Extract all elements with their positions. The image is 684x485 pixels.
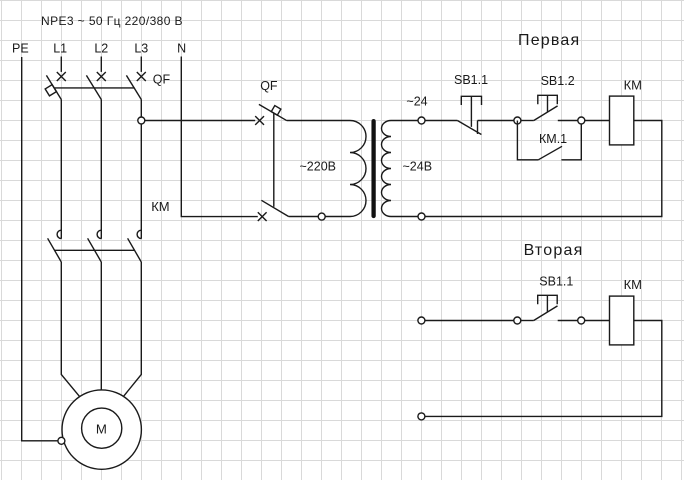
breaker QF pole 1 blade xyxy=(46,75,61,99)
breaker QF control link xyxy=(273,113,275,207)
contactor KM mechanical link xyxy=(55,249,135,251)
wire KM coil return loop (Vtoraya) xyxy=(425,321,662,417)
wire L1 drop xyxy=(60,57,62,72)
wire N xyxy=(181,57,257,217)
wire PE xyxy=(22,57,58,441)
node PE-motor xyxy=(58,437,65,444)
breaker QF pole 1 cross xyxy=(57,72,66,81)
wire L3 mid xyxy=(140,100,142,239)
svg-text:PE: PE xyxy=(12,42,29,56)
wire L2 lower xyxy=(100,262,102,390)
button SB1.2 actuator xyxy=(538,95,558,112)
node before KM coil (Vtoraya) xyxy=(578,317,585,324)
svg-text:КМ: КМ xyxy=(624,277,642,292)
svg-text:NPE3 ~ 50 Гц 220/380 В: NPE3 ~ 50 Гц 220/380 В xyxy=(41,14,183,28)
contactor KM pole 3 arc xyxy=(137,230,141,238)
breaker QF pole 3 blade xyxy=(126,75,141,99)
node before KM coil xyxy=(578,117,585,124)
contact KM.1 blade xyxy=(538,146,562,160)
breaker QF control pole 2 blade xyxy=(261,200,288,216)
breaker QF pole 2 cross xyxy=(97,72,106,81)
wire KM coil return loop xyxy=(425,121,662,217)
contactor KM pole 2 arc xyxy=(97,230,101,238)
node terminal 2a xyxy=(418,317,425,324)
svg-text:~24В: ~24В xyxy=(403,159,433,173)
node secondary top xyxy=(418,117,425,124)
contactor KM pole 1 blade xyxy=(48,238,62,262)
motor M inner circle xyxy=(82,408,122,448)
coil KM (Vtoraya) xyxy=(610,296,634,345)
svg-text:~220В: ~220В xyxy=(300,159,337,173)
svg-text:L2: L2 xyxy=(94,42,108,56)
svg-text:QF: QF xyxy=(260,79,278,93)
node secondary bottom xyxy=(418,213,425,220)
node terminal primary bottom xyxy=(318,213,325,220)
svg-text:N: N xyxy=(177,42,186,56)
wire L1 mid xyxy=(60,100,62,239)
svg-text:L1: L1 xyxy=(53,42,67,56)
wire terminal to SB1.1 (Vtoraya) xyxy=(425,320,514,322)
wire L2 drop xyxy=(100,57,102,72)
wire secondary top to SB1.1 xyxy=(425,120,458,122)
wire SB1.2 to node xyxy=(558,120,578,122)
svg-text:M: M xyxy=(96,422,107,437)
svg-text:SB1.2: SB1.2 xyxy=(541,74,575,88)
button SB1.1 actuator xyxy=(461,96,481,127)
wire node to KM coil xyxy=(585,120,610,122)
transformer T1 core xyxy=(371,121,375,216)
breaker QF actuator square xyxy=(45,85,56,96)
breaker QF control pole 1 blade xyxy=(259,104,287,120)
breaker QF pole 2 blade xyxy=(86,75,101,99)
node terminal 2b xyxy=(418,413,425,420)
svg-text:КМ: КМ xyxy=(624,77,642,92)
breaker QF control pole 1 cross xyxy=(255,116,264,125)
wire L2 mid xyxy=(100,100,102,239)
svg-text:Вторая: Вторая xyxy=(524,242,584,259)
wire node to coil (Vtoraya) xyxy=(585,320,610,322)
wire node to blade (Vtoraya) xyxy=(521,320,534,322)
contactor KM pole 2 blade xyxy=(88,238,102,262)
coil KM (Pervaya) xyxy=(610,96,634,145)
wire L3 lower xyxy=(121,262,142,400)
button SB1.2 blade (NO) xyxy=(534,106,558,121)
transformer T1 secondary winding xyxy=(382,121,422,217)
wire KM.1 branch right xyxy=(561,121,581,160)
node after SB1.1 xyxy=(514,117,521,124)
svg-text:L3: L3 xyxy=(134,42,148,56)
button SB1.1 blade (NC) xyxy=(457,121,481,135)
node L3 control tap xyxy=(138,117,145,124)
svg-text:Первая: Первая xyxy=(518,32,580,49)
contactor KM pole 3 blade xyxy=(128,238,142,262)
transformer T1 primary winding xyxy=(289,121,366,217)
wire blade to node (Vtoraya) xyxy=(558,320,578,322)
contactor KM pole 1 arc xyxy=(57,230,61,238)
wire L3 drop xyxy=(140,57,142,72)
motor M outer circle xyxy=(62,390,141,469)
svg-text:~24: ~24 xyxy=(406,94,427,108)
wire SB1.1 to node xyxy=(478,120,515,122)
breaker QF control actuator square xyxy=(271,106,281,116)
wire node to SB1.2 xyxy=(521,120,534,122)
button SB1.1 blade (Vtoraya, NO) xyxy=(534,306,558,321)
svg-text:QF: QF xyxy=(153,73,171,87)
button SB1.1 actuator (Vtoraya) xyxy=(538,295,558,312)
svg-text:КМ.1: КМ.1 xyxy=(539,132,567,146)
svg-text:КМ: КМ xyxy=(151,199,169,214)
breaker QF control pole 2 cross xyxy=(258,212,267,221)
node before SB1.1 (Vtoraya) xyxy=(514,317,521,324)
breaker QF pole 3 cross xyxy=(137,72,146,81)
wire KM.1 branch left xyxy=(517,121,538,160)
wire L1 lower xyxy=(61,262,82,400)
breaker QF mechanical link xyxy=(55,87,135,89)
wire to transformer primary xyxy=(287,120,350,122)
wire L3 tap to QF control xyxy=(145,120,256,122)
button SB1.1 right stub xyxy=(477,121,479,135)
svg-text:SB1.1: SB1.1 xyxy=(539,274,573,288)
svg-text:SB1.1: SB1.1 xyxy=(454,73,488,87)
